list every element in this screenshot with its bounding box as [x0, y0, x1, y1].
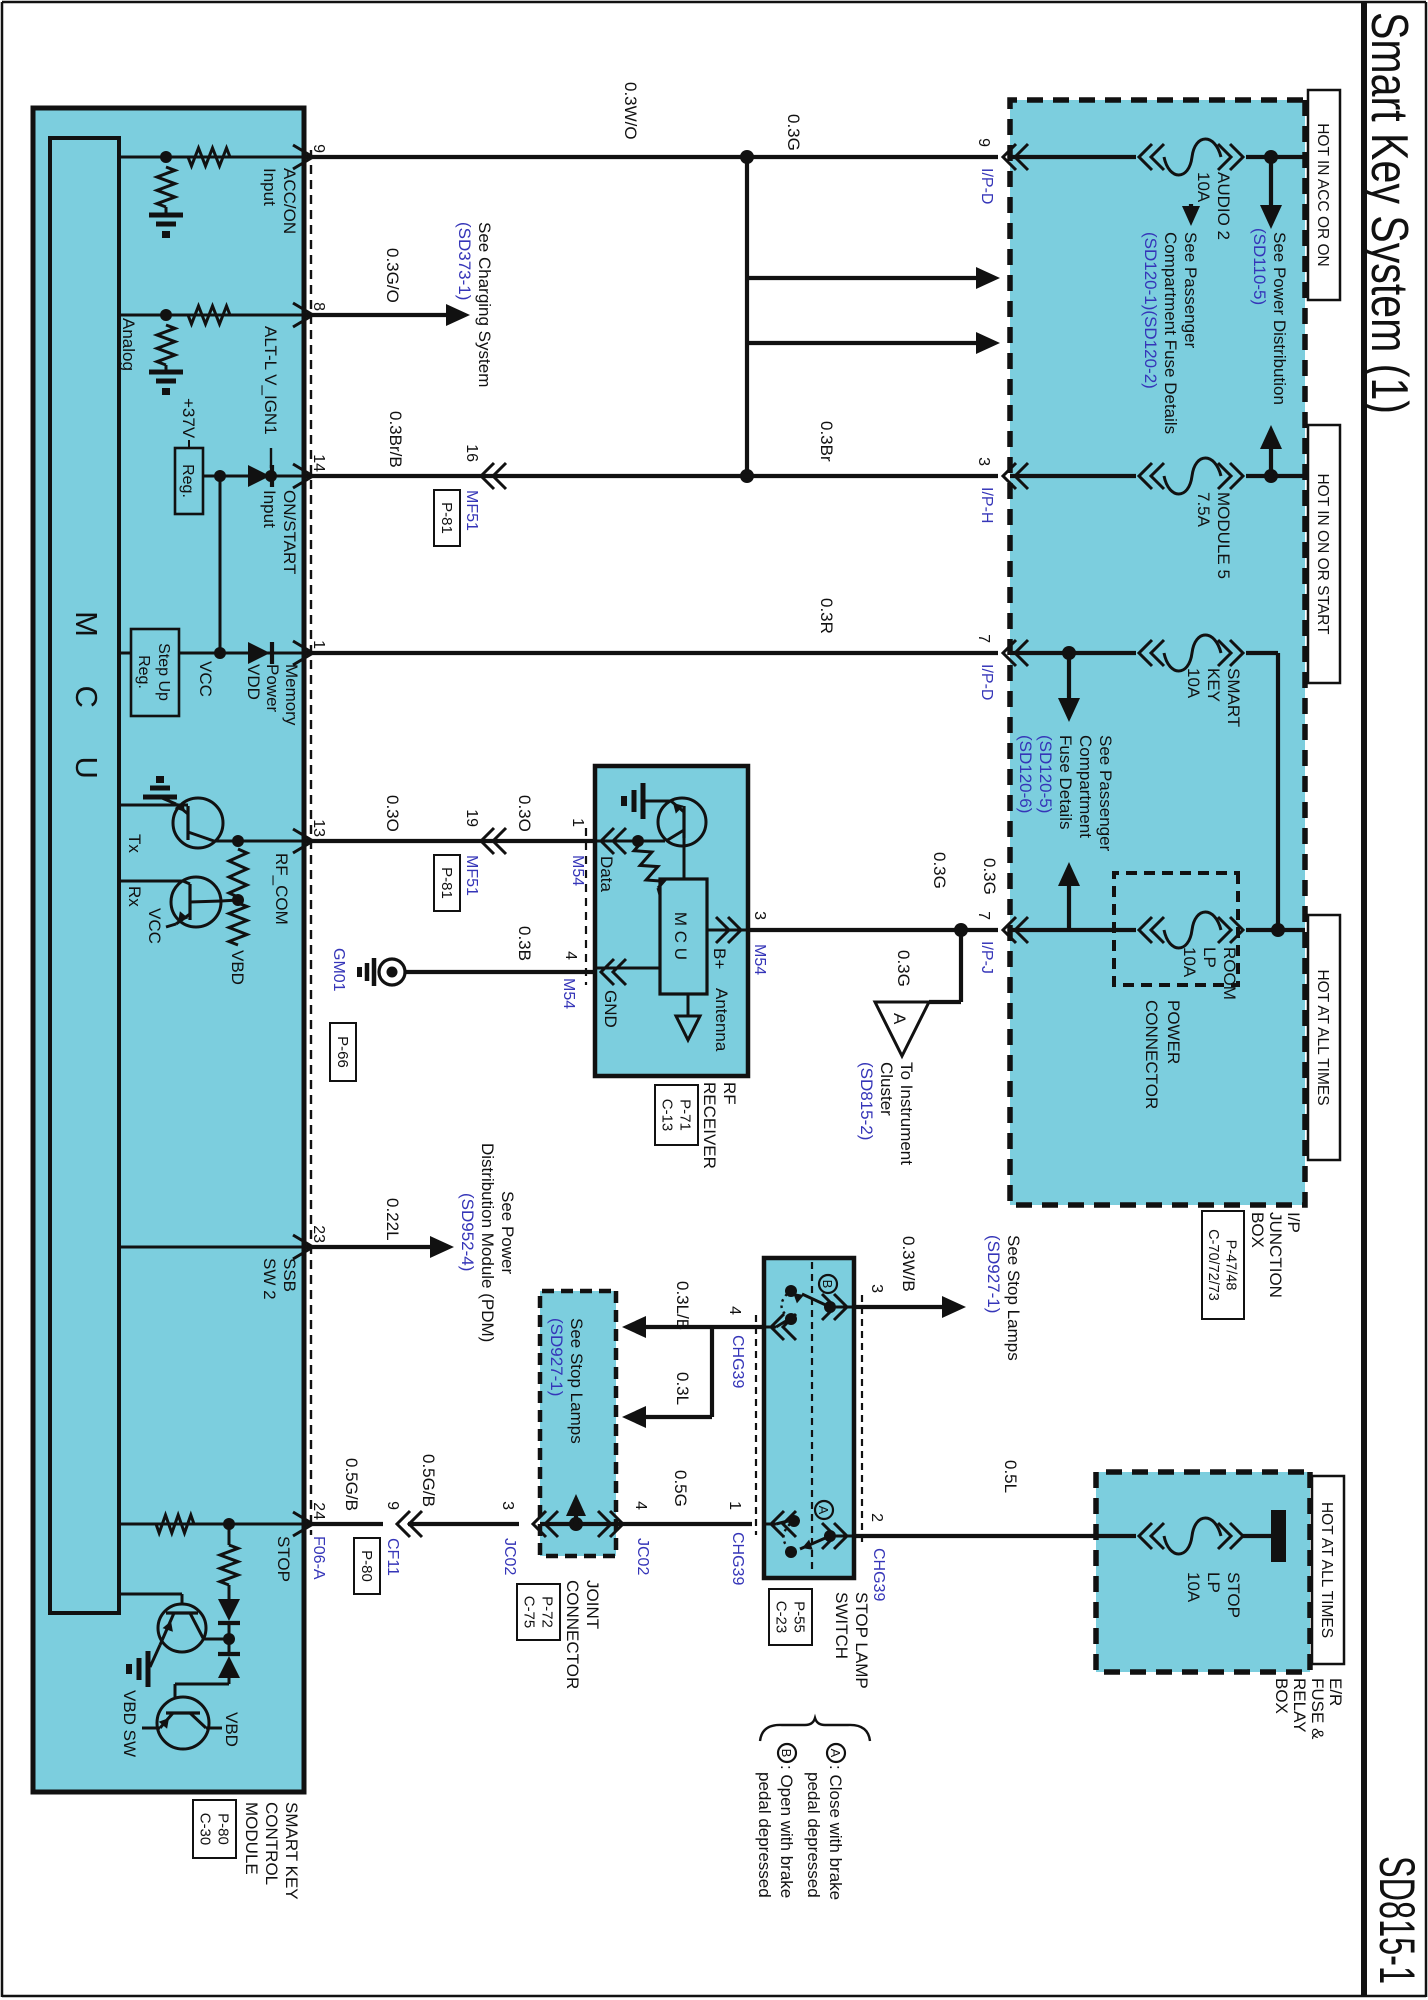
svg-text:Step Up: Step Up: [155, 643, 172, 701]
svg-text:A: A: [890, 1013, 909, 1025]
fuse SMART KEY 10A: [1230, 640, 1243, 666]
svg-text:HOT IN ACC OR ON: HOT IN ACC OR ON: [1314, 123, 1331, 267]
svg-text:+37V: +37V: [179, 398, 198, 439]
svg-text:(SD927-1): (SD927-1): [984, 1235, 1003, 1313]
svg-text:9: 9: [310, 144, 327, 153]
wire data pin to transistor: [638, 840, 665, 843]
arrow to power distribution note: [1260, 205, 1282, 229]
svg-text:4: 4: [726, 1306, 743, 1315]
svg-text:See Stop Lamps: See Stop Lamps: [1004, 1235, 1023, 1361]
svg-text:4: 4: [632, 1501, 649, 1510]
svg-text:0.3Br/B: 0.3Br/B: [386, 411, 405, 468]
smart key control module box: [33, 108, 304, 1792]
svg-text:To Instrument: To Instrument: [897, 1062, 916, 1165]
RF pin 1 connector: [601, 828, 614, 854]
svg-text:BOX: BOX: [1272, 1678, 1291, 1714]
svg-text:9: 9: [384, 1501, 401, 1510]
fuse MODULE 5 7.5A: [1230, 463, 1243, 489]
svg-text:See Power Distribution: See Power Distribution: [1270, 232, 1289, 405]
svg-text:HOT AT ALL TIMES: HOT AT ALL TIMES: [1314, 969, 1331, 1105]
svg-text:1: 1: [569, 818, 586, 827]
wire diode to vcc rail: [220, 475, 248, 478]
wire 0.5L fuse to stop lamp switch pin 2: [854, 1534, 1136, 1538]
svg-text:Memory: Memory: [282, 664, 301, 726]
module pin 24: [293, 1512, 313, 1536]
connector ref P-80 C-30: [193, 1800, 236, 1858]
svg-text:HOT AT ALL TIMES: HOT AT ALL TIMES: [1318, 1502, 1335, 1638]
svg-text:BOX: BOX: [1248, 1212, 1267, 1248]
junction node fuse2 output: [1264, 469, 1278, 483]
svg-text:0.3G: 0.3G: [930, 852, 949, 889]
svg-text:E/R: E/R: [1326, 1678, 1345, 1706]
wire 0.3W/B pin3 to stop lamps: [854, 1305, 942, 1309]
joint connector JC02 box (dashed): [540, 1291, 616, 1556]
svg-text:KEY: KEY: [1204, 668, 1223, 702]
svg-text:0.3W/B: 0.3W/B: [899, 1236, 918, 1292]
arrow to fuse details note: [1058, 698, 1080, 722]
svg-text:M54: M54: [569, 855, 586, 886]
svg-text:JC02: JC02: [501, 1538, 518, 1575]
wire 0.3B ground GM01: [405, 970, 594, 974]
svg-text:0.5L: 0.5L: [1001, 1460, 1020, 1493]
wire 0.5G/B CF11 to JC02: [408, 1522, 519, 1526]
svg-text:0.3W/O: 0.3W/O: [621, 82, 640, 140]
contact B set: [836, 1306, 854, 1309]
wire emitter to ground: [645, 800, 671, 803]
svg-text:M54: M54: [751, 944, 768, 975]
svg-text:pedal depressed: pedal depressed: [755, 1772, 774, 1898]
wire stub into junction box: [747, 341, 976, 345]
svg-text:3: 3: [751, 911, 768, 920]
svg-text:ACC/ON: ACC/ON: [280, 168, 299, 234]
dashed mechanical link line: [811, 1262, 813, 1574]
diode pin1: [270, 642, 274, 664]
resistor R2: [229, 903, 247, 945]
power connector dashed box: [1114, 873, 1238, 985]
svg-text:JOINT: JOINT: [583, 1580, 602, 1629]
module pin 14: [293, 464, 313, 488]
wire branch to fuse details note: [1067, 653, 1071, 700]
fuse STOP LP 10A: [1230, 1523, 1243, 1549]
svg-text:Compartment Fuse Details: Compartment Fuse Details: [1161, 232, 1180, 434]
svg-text:MF51: MF51: [463, 490, 480, 531]
junction node: [160, 151, 172, 163]
svg-text:24: 24: [310, 1502, 327, 1520]
wire through JC02: [540, 1522, 616, 1526]
svg-text:See Charging System: See Charging System: [475, 222, 494, 387]
svg-text:POWER: POWER: [1164, 1000, 1183, 1064]
svg-text:0.3O: 0.3O: [383, 795, 402, 832]
svg-text:SMART: SMART: [1224, 668, 1243, 727]
wire B+ from RF MCU to pin 3: [707, 929, 748, 932]
svg-text:P-72: P-72: [538, 1596, 555, 1628]
svg-text:CHG39: CHG39: [729, 1532, 746, 1585]
pin 7 I/P-J connector: [1003, 917, 1016, 943]
junction node: [232, 835, 244, 847]
junction node: [740, 150, 754, 164]
wire fuse2 top stub: [1246, 474, 1305, 478]
wire to VBD SW transistor: [175, 1683, 229, 1686]
svg-text:Compartment: Compartment: [1076, 735, 1095, 838]
regulator box Reg.: [175, 448, 203, 514]
wire pin24 internal: [119, 1523, 304, 1526]
inline connector CF11 pin9: [397, 1511, 410, 1537]
page frame: [2, 1, 1426, 4]
transistor Q stop: [158, 1604, 206, 1652]
svg-text:7: 7: [975, 634, 992, 643]
wire fuse4 top stub: [1246, 928, 1305, 932]
transistor Tx Q: [173, 798, 223, 848]
title bar heavy line: [1361, 2, 1367, 1996]
svg-text:MODULE: MODULE: [242, 1802, 261, 1875]
contact A set: [836, 1535, 854, 1538]
branch resistor: [220, 1545, 238, 1585]
arrow pointing left to note: [1260, 425, 1282, 449]
svg-text:7: 7: [975, 911, 992, 920]
svg-text:LP: LP: [1204, 1572, 1223, 1593]
svg-text:Antenna: Antenna: [712, 988, 731, 1052]
wire collector to diode node: [203, 1638, 229, 1641]
I/P junction box (dashed): [1010, 100, 1305, 1205]
pin 3 I/P-H connector: [1003, 463, 1016, 489]
svg-text:SW 2: SW 2: [260, 1258, 279, 1300]
svg-text:Cluster: Cluster: [877, 1062, 896, 1116]
connector ref P-47/48 C-70/72/73: [1202, 1211, 1244, 1319]
VCC rail wire: [219, 476, 222, 653]
svg-text:I/P: I/P: [1284, 1212, 1303, 1233]
svg-text:CONNECTOR: CONNECTOR: [563, 1580, 582, 1689]
junction node: [740, 469, 754, 483]
svg-text:GND: GND: [601, 990, 620, 1028]
svg-text:I/P-D: I/P-D: [978, 664, 995, 700]
Rx emitter to VCC: [176, 914, 190, 924]
connector ref P-72 C-75: [517, 1584, 560, 1640]
arrow to stop lamps: [942, 1296, 966, 1318]
wire 0.3L branch: [710, 1327, 714, 1417]
diode D2: [218, 1652, 240, 1656]
arrow into junction box: [976, 267, 1000, 289]
svg-text:19: 19: [463, 809, 480, 827]
wire bar to fuse: [1242, 1534, 1271, 1538]
arrow pointing left to fuse details note: [1058, 862, 1080, 886]
emitter to ground: [160, 1613, 174, 1645]
svg-text:B: B: [779, 1749, 794, 1758]
svg-text:C-23: C-23: [772, 1601, 789, 1634]
wire fuse4 to pin I/P-J 7: [1010, 928, 1136, 932]
diode D1: [218, 1621, 240, 1625]
wire base from MCU: [181, 1594, 184, 1604]
resistor pin8 series: [188, 306, 230, 324]
svg-text:0.22L: 0.22L: [383, 1198, 402, 1241]
svg-text:Reg.: Reg.: [179, 464, 196, 498]
module MCU box: [50, 138, 119, 1613]
circled letter B: [819, 1275, 837, 1293]
svg-text:See Power: See Power: [498, 1191, 517, 1274]
RF receiver box: [595, 766, 748, 1076]
switch pin 1 connector: [771, 1511, 784, 1537]
ground GM01: [379, 959, 405, 985]
wire pin8 internal: [119, 314, 304, 317]
svg-text:FUSE &: FUSE &: [1308, 1678, 1327, 1740]
wire branch to see-power-distribution: [1269, 157, 1273, 207]
wire Tx base from MCU: [119, 804, 188, 807]
svg-text:See Passenger: See Passenger: [1181, 232, 1200, 349]
pin 9 I/P-D connector: [1003, 144, 1016, 170]
svg-text:(SD952-4): (SD952-4): [458, 1193, 477, 1271]
ground pin8: [149, 370, 183, 375]
RF MCU box: [660, 879, 707, 994]
emitter to ground: [176, 804, 188, 814]
junction node: [232, 894, 244, 906]
svg-text:CF11: CF11: [384, 1538, 401, 1576]
svg-text:M C U: M C U: [69, 611, 104, 799]
module pin 13: [293, 829, 313, 853]
svg-text:Reg.: Reg.: [135, 655, 152, 689]
junction node: [223, 1518, 235, 1530]
svg-text:0.3L: 0.3L: [673, 1372, 692, 1405]
wire stub into junction box: [747, 276, 976, 280]
antenna wire: [687, 994, 690, 1016]
svg-text:(SD373-1): (SD373-1): [455, 222, 474, 300]
wire 0.3G RF receiver B+ to room lp fuse: [748, 928, 998, 932]
wire 0.5G/B pin24 to CF11: [304, 1522, 383, 1526]
wire fuse1 top stub: [1246, 155, 1305, 159]
svg-text:C-70/72/73: C-70/72/73: [1205, 1229, 1221, 1301]
svg-text:VBD: VBD: [222, 1712, 241, 1747]
JC02 pin 4 connector: [610, 1511, 623, 1537]
legend circled B: [778, 1744, 796, 1762]
dashed connector line RF pins: [585, 828, 587, 985]
svg-text:Power: Power: [263, 664, 282, 713]
legend brace: [760, 1718, 870, 1741]
switch pin 4 connector: [771, 1314, 784, 1340]
wire branch to instrument cluster: [959, 930, 963, 1002]
svg-text:M C U: M C U: [671, 912, 690, 960]
svg-text:C-75: C-75: [520, 1596, 537, 1629]
arrow into JC02 area: [622, 1406, 646, 1428]
arrow to charging system: [446, 304, 470, 326]
junction node: [223, 1633, 235, 1645]
svg-text:P-47/48: P-47/48: [1223, 1240, 1239, 1291]
junction node: [214, 470, 226, 482]
svg-text:VDD: VDD: [244, 664, 263, 700]
module pin 8: [293, 303, 313, 327]
svg-text:ALT-L V_IGN1: ALT-L V_IGN1: [261, 326, 280, 435]
antenna symbol: [676, 1016, 700, 1040]
resistor pin9 series: [188, 148, 230, 166]
pin 7 I/P-D connector: [1003, 640, 1016, 666]
connector ref P-71 C-13: [655, 1085, 698, 1145]
svg-text:7.5A: 7.5A: [1194, 492, 1213, 528]
collector stub VBD: [190, 1713, 206, 1728]
svg-text:STOP: STOP: [1224, 1572, 1243, 1618]
svg-text:(SD110-5): (SD110-5): [1250, 228, 1269, 305]
emitter stub: [160, 1713, 173, 1728]
svg-text:16: 16: [463, 444, 480, 462]
svg-text:Fuse Details: Fuse Details: [1056, 735, 1075, 829]
module pin 1: [293, 641, 313, 665]
svg-text:2: 2: [868, 1513, 885, 1522]
junction node fuse3 branch: [1062, 646, 1076, 660]
svg-text:VCC: VCC: [145, 908, 164, 944]
wire fuse2 to pin I/P-H 3: [1010, 474, 1136, 478]
dashed connector line bottom pins: [755, 1315, 757, 1535]
svg-text:A: A: [828, 1749, 843, 1758]
svg-text:0.3Br: 0.3Br: [817, 421, 836, 462]
svg-text:JC02: JC02: [634, 1538, 651, 1575]
wire stepup to MCU: [119, 652, 131, 655]
fuse AUDIO 2 10A: [1230, 144, 1243, 170]
svg-text:3: 3: [975, 457, 992, 466]
svg-text:P-71: P-71: [676, 1099, 693, 1131]
diode pin14: [270, 465, 274, 487]
junction node: [214, 647, 226, 659]
E/R fuse and relay box (dashed): [1096, 1472, 1310, 1672]
pointer triangle A to instrument cluster: [875, 1002, 929, 1056]
connector ref P-81: [434, 855, 460, 911]
connector ref P-81: [434, 490, 460, 546]
svg-text:3: 3: [499, 1501, 516, 1510]
transistor VBD SW: [157, 1697, 209, 1749]
svg-text:0.3O: 0.3O: [515, 795, 534, 832]
svg-text:SWITCH: SWITCH: [832, 1592, 851, 1659]
svg-text:HOT IN ON OR START: HOT IN ON OR START: [1314, 473, 1331, 635]
label HOT IN ACC OR ON: [1308, 90, 1340, 300]
ground Q stop: [146, 1651, 151, 1687]
svg-text:I/P-H: I/P-H: [978, 487, 995, 523]
svg-text:0.5G/B: 0.5G/B: [419, 1454, 438, 1507]
inline connector MF51 pin19: [481, 828, 494, 854]
svg-text:LP: LP: [1200, 947, 1219, 968]
svg-text:VBD SW: VBD SW: [120, 1690, 139, 1757]
svg-text:(SD120-1)(SD120-2): (SD120-1)(SD120-2): [1141, 232, 1160, 389]
arrow into junction box: [976, 332, 1000, 354]
svg-text:See Passenger: See Passenger: [1096, 735, 1115, 852]
svg-text:Analog: Analog: [119, 318, 138, 371]
svg-text:0.3B: 0.3B: [515, 926, 534, 961]
svg-text:0.5G/B: 0.5G/B: [342, 1458, 361, 1511]
svg-text:B: B: [820, 1280, 835, 1289]
svg-text:10A: 10A: [1180, 947, 1199, 978]
svg-text:(SD120-5): (SD120-5): [1036, 735, 1055, 813]
resistor R1: [229, 849, 247, 897]
wire collector to node: [214, 840, 238, 843]
ground RF: [641, 783, 646, 819]
module pin 9: [293, 145, 313, 169]
svg-text:Data: Data: [597, 856, 616, 892]
svg-text:0.3G: 0.3G: [980, 858, 999, 895]
junction node: [265, 470, 277, 482]
svg-text:P-66: P-66: [334, 1036, 351, 1068]
svg-text:0.3G: 0.3G: [894, 950, 913, 987]
svg-text:I/P-D: I/P-D: [978, 168, 995, 204]
svg-text:C-30: C-30: [196, 1813, 213, 1846]
svg-text:P-80: P-80: [358, 1550, 375, 1582]
svg-text:Rx: Rx: [125, 886, 144, 907]
svg-text:VBD: VBD: [228, 950, 247, 985]
circled letter A: [815, 1501, 833, 1519]
module pin 23: [293, 1235, 313, 1259]
stop lamp switch box: [764, 1258, 854, 1578]
svg-text:P-81: P-81: [438, 867, 455, 899]
svg-text:ON/START: ON/START: [280, 490, 299, 574]
svg-text:10A: 10A: [1194, 172, 1213, 203]
junction node: [569, 1517, 583, 1531]
svg-text:SSB: SSB: [280, 1258, 299, 1292]
svg-text:AUDIO 2: AUDIO 2: [1214, 172, 1233, 240]
bus bar: [1271, 1510, 1286, 1562]
svg-text:1: 1: [310, 640, 327, 649]
legend circled A: [827, 1744, 845, 1762]
svg-text:3: 3: [868, 1284, 885, 1293]
arrow to passenger fuse details note: [1182, 206, 1200, 226]
wire to step-up regulator: [179, 652, 220, 655]
svg-text:STOP LAMP: STOP LAMP: [852, 1592, 871, 1689]
RF pin 3 connector B+: [728, 917, 741, 943]
svg-text:MF51: MF51: [463, 855, 480, 896]
svg-text:C-13: C-13: [658, 1099, 675, 1132]
resistor pin9 pulldown: [157, 167, 175, 207]
label HOT IN ON OR START: [1308, 425, 1340, 683]
svg-text:SMART KEY: SMART KEY: [282, 1802, 301, 1900]
svg-text:GM01: GM01: [330, 948, 347, 992]
svg-text:B+: B+: [710, 948, 729, 969]
svg-text:0.5G: 0.5G: [671, 1470, 690, 1507]
svg-text:4: 4: [562, 951, 579, 960]
svg-text:0.3L/B: 0.3L/B: [673, 1281, 692, 1330]
svg-text:RELAY: RELAY: [1290, 1678, 1309, 1733]
svg-text:CONTROL: CONTROL: [262, 1802, 281, 1885]
junction node: [632, 835, 644, 847]
connector ref P-80: [354, 1538, 380, 1594]
svg-text:Smart Key System (1): Smart Key System (1): [1360, 12, 1418, 414]
RF pin 4 connector: [601, 959, 614, 985]
svg-text:VCC: VCC: [196, 661, 215, 697]
switch pin 3 connector: [834, 1294, 847, 1320]
wire fuse3 to pin I/P-D 7: [1010, 651, 1136, 655]
ground Tx: [143, 795, 177, 800]
wire 0.3R pin1 to smart key fuse: [304, 651, 998, 655]
svg-text:RECEIVER: RECEIVER: [700, 1082, 719, 1169]
resistor pin24 series: [156, 1515, 194, 1533]
junction node fuse4 top: [1271, 923, 1285, 937]
svg-text:pedal depressed: pedal depressed: [804, 1772, 823, 1898]
svg-text:See Stop Lamps: See Stop Lamps: [567, 1318, 586, 1444]
svg-text:Distribution Module (PDM): Distribution Module (PDM): [478, 1143, 497, 1342]
wire fuse3 elbow to room-lp wire: [1246, 651, 1278, 655]
svg-text:STOP: STOP: [274, 1536, 293, 1582]
svg-text:1: 1: [726, 1501, 743, 1510]
wire pin1 internal: [248, 652, 304, 655]
svg-text:RF_COM: RF_COM: [272, 853, 291, 925]
wire 0.3G/O pin8 to charging system: [304, 313, 446, 317]
svg-text:Input: Input: [260, 168, 279, 206]
svg-text:P-55: P-55: [790, 1601, 807, 1633]
svg-text:8: 8: [310, 302, 327, 311]
wire 0.5G JC02 to stop lamp switch pin1: [616, 1522, 752, 1526]
svg-text:: Open with brake: : Open with brake: [777, 1765, 796, 1898]
svg-text:P-81: P-81: [438, 502, 455, 534]
inline connector MF51 pin16: [481, 463, 494, 489]
svg-text:0.3G: 0.3G: [784, 114, 803, 151]
wire branch to fuse details note: [1067, 884, 1071, 930]
svg-text:14: 14: [310, 454, 327, 472]
svg-text:10A: 10A: [1184, 668, 1203, 699]
svg-text:SD815-1: SD815-1: [1369, 1856, 1425, 1984]
junction node fuse1 output: [1264, 150, 1278, 164]
svg-text:(SD927-1): (SD927-1): [547, 1318, 566, 1396]
junction node instrument cluster branch: [954, 923, 968, 937]
